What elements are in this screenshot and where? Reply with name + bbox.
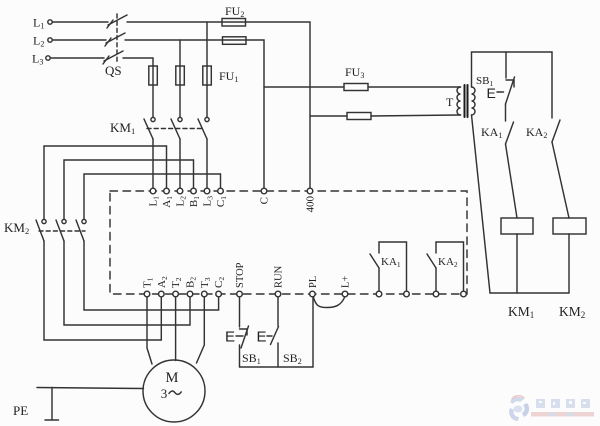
fuse FU3 upper	[344, 84, 459, 91]
wire KM2 coil to bottom rail	[568, 234, 570, 293]
motor M	[143, 360, 205, 422]
wire C branch to FU3 upper	[264, 86, 344, 88]
wire RUN to SB2 button	[277, 297, 279, 326]
terminal L3 top	[204, 188, 210, 194]
wire secondary bottom return	[472, 115, 491, 293]
svg-text:SB2: SB2	[283, 351, 302, 366]
wire T3 to motor	[197, 297, 205, 363]
coil KM1	[501, 218, 533, 234]
svg-text:KM2: KM2	[4, 220, 29, 236]
wire C1 to KM2 pole c	[84, 174, 221, 219]
svg-text:T: T	[446, 95, 454, 109]
wire control bottom rail	[490, 292, 569, 294]
svg-text:PL: PL	[308, 276, 319, 288]
terminal STOP	[237, 291, 243, 297]
wire KM1 pole1 to terminal L1	[152, 139, 154, 189]
wire KM1 pole2 to terminal L2	[179, 139, 181, 189]
actuator E of SB1 stop	[225, 329, 243, 346]
wire L2 input	[52, 39, 106, 41]
actuator E of SB1	[487, 85, 504, 101]
relay contact KA1 (NO)	[506, 122, 514, 144]
contactor KM1 pole 1	[144, 117, 155, 139]
contactor KM2 pole a	[36, 219, 46, 241]
wire button common rail	[240, 366, 314, 368]
wire FU1a to KM1	[152, 85, 154, 117]
svg-text:L3: L3	[202, 196, 215, 207]
svg-text:KM1: KM1	[508, 304, 534, 320]
terminal KA1 b	[404, 291, 410, 297]
svg-text:KA2: KA2	[526, 125, 547, 140]
terminal T3	[202, 291, 208, 297]
node L1	[48, 20, 52, 24]
svg-text:FU2: FU2	[225, 4, 244, 19]
pushbutton SB2 run (NO)	[271, 327, 279, 368]
wire PE to motor	[37, 388, 144, 389]
terminal B2	[187, 291, 193, 297]
wire branch L2 down to FU1b	[179, 40, 181, 66]
wire KA1 to KM1 coil	[506, 144, 518, 218]
svg-text:L3: L3	[32, 52, 43, 67]
wire KM2 pole c to C2	[84, 241, 219, 310]
terminal KA2 b	[461, 291, 467, 297]
wire STOP to SB1 button	[239, 297, 241, 327]
terminal L1 top	[150, 188, 156, 194]
switch QS pole 2	[105, 33, 125, 46]
svg-text:QS: QS	[105, 63, 122, 78]
svg-text:FU3: FU3	[345, 65, 364, 80]
terminal 400	[307, 188, 313, 194]
wire T1 to motor	[147, 297, 152, 364]
wire FU2 upper to 400 column	[246, 22, 311, 189]
transformer T secondary winding	[472, 87, 476, 115]
svg-text:RUN: RUN	[274, 265, 285, 288]
wire KM1 pole3 to terminal L3	[206, 139, 208, 189]
wire stub B1	[193, 160, 195, 188]
wire L3 to FU1a	[123, 58, 153, 66]
svg-text:L2: L2	[33, 34, 44, 49]
contactor KM2 linkage	[39, 230, 85, 232]
fuse FU1 b	[176, 66, 185, 85]
svg-text:E: E	[487, 85, 496, 101]
svg-text:3: 3	[161, 386, 168, 401]
wire FU1c to KM1	[206, 85, 208, 117]
terminal T2	[173, 291, 179, 297]
svg-text:KM1: KM1	[110, 120, 135, 136]
terminal KA1 a	[376, 291, 382, 297]
wire 400 branch to FU3 lower	[310, 115, 347, 117]
terminal RUN	[275, 291, 281, 297]
svg-text:A2: A2	[156, 276, 169, 288]
actuator E of SB2 run	[257, 329, 273, 346]
node L3	[46, 56, 50, 60]
svg-text:KA1: KA1	[381, 256, 401, 269]
terminal PL	[310, 291, 316, 297]
svg-text:KA1: KA1	[481, 125, 502, 140]
terminal Lplus	[342, 291, 348, 297]
svg-text:B1: B1	[188, 196, 201, 207]
wire KM1 coil to bottom rail	[516, 234, 518, 293]
svg-text:C1: C1	[215, 196, 228, 207]
wire KM2 pole a to A2	[44, 241, 161, 340]
wire L1 to FU2	[127, 21, 222, 23]
svg-text:E: E	[257, 329, 267, 346]
svg-text:L2: L2	[175, 196, 188, 207]
svg-text:B2: B2	[185, 277, 198, 288]
terminal C	[261, 188, 267, 194]
wire A1 to KM2 pole a	[44, 146, 167, 219]
relay contact KA2 (NO)	[552, 120, 560, 142]
wire L2 to FU2	[125, 39, 222, 41]
svg-text:STOP: STOP	[235, 262, 246, 288]
wire T2 to motor	[175, 297, 177, 361]
wire KA2 to KM2 coil	[552, 142, 569, 218]
switch QS pole 3	[103, 51, 123, 64]
svg-text:C2: C2	[213, 277, 226, 288]
svg-text:C: C	[259, 197, 271, 204]
wire stub A1	[166, 146, 168, 188]
wire KM2 pole b to B2	[64, 241, 190, 325]
terminal T1	[144, 291, 150, 297]
wire L3 input	[50, 57, 104, 59]
wire B1 to KM2 pole b	[64, 160, 194, 219]
svg-text:PE: PE	[13, 403, 28, 418]
fuse FU1 c	[203, 66, 212, 85]
transformer T core	[465, 85, 468, 117]
wire rail drop to SB1	[505, 52, 507, 78]
svg-text:T1: T1	[142, 277, 155, 288]
fuse FU1 a	[149, 66, 158, 85]
contactor KM1 pole 2	[171, 117, 182, 139]
contactor KM1 linkage	[147, 128, 202, 130]
terminal L2 top	[177, 188, 183, 194]
terminal B1 top	[191, 188, 197, 194]
wire SB1 to KA1 contact	[505, 104, 507, 121]
svg-text:400: 400	[305, 196, 317, 213]
wire rail corner to KA2	[551, 52, 553, 118]
terminal A2	[159, 291, 165, 297]
coil KM2	[553, 218, 586, 234]
wire FU1b to KM1	[179, 85, 181, 117]
terminal A1 top	[164, 188, 170, 194]
fuse FU2 lower	[222, 37, 246, 45]
terminal C2	[216, 291, 222, 297]
svg-text:L1: L1	[148, 196, 161, 207]
wire secondary top to rail	[472, 52, 553, 87]
svg-text:T3: T3	[199, 277, 212, 288]
watermark logo	[509, 396, 529, 421]
wire branch L1 down to FU1c	[206, 22, 208, 66]
svg-text:L1: L1	[33, 16, 44, 31]
svg-text:A1: A1	[161, 196, 174, 208]
fuse FU2 upper	[222, 19, 246, 27]
svg-text:SB1: SB1	[242, 351, 261, 366]
wire stub C1	[220, 174, 222, 188]
switch QS pole 1	[107, 15, 127, 28]
fuse FU3 lower	[347, 113, 459, 120]
contactor KM2 pole c	[76, 219, 86, 241]
relay output KA1 bracket	[370, 242, 407, 291]
node L2	[48, 38, 52, 42]
svg-text:T2: T2	[170, 277, 183, 288]
ground PE bar	[45, 388, 59, 421]
svg-text:FU1: FU1	[219, 69, 238, 84]
wire FU2 lower to C column	[246, 40, 264, 189]
terminal KA2 a	[433, 291, 439, 297]
svg-text:KA2: KA2	[438, 256, 458, 269]
pushbutton SB1 (NC)	[506, 77, 515, 104]
svg-text:M: M	[166, 370, 179, 386]
relay output KA2 bracket	[427, 242, 464, 291]
wire L1 input	[52, 21, 108, 23]
svg-text:KM2: KM2	[559, 304, 585, 320]
pushbutton SB1 stop (NC)	[240, 326, 249, 367]
svg-text:L+: L+	[341, 276, 352, 288]
wire rail up to PL	[312, 297, 314, 367]
wire jumper PL to Lplus	[314, 298, 345, 308]
transformer T primary winding	[457, 87, 460, 115]
watermark text	[531, 399, 594, 417]
soft starter dashed enclosure	[110, 191, 467, 294]
svg-text:E: E	[225, 329, 235, 346]
terminal C1 top	[218, 188, 224, 194]
switch QS linkage	[116, 14, 118, 63]
contactor KM1 pole 3	[198, 117, 209, 139]
contactor KM2 pole b	[56, 219, 66, 241]
